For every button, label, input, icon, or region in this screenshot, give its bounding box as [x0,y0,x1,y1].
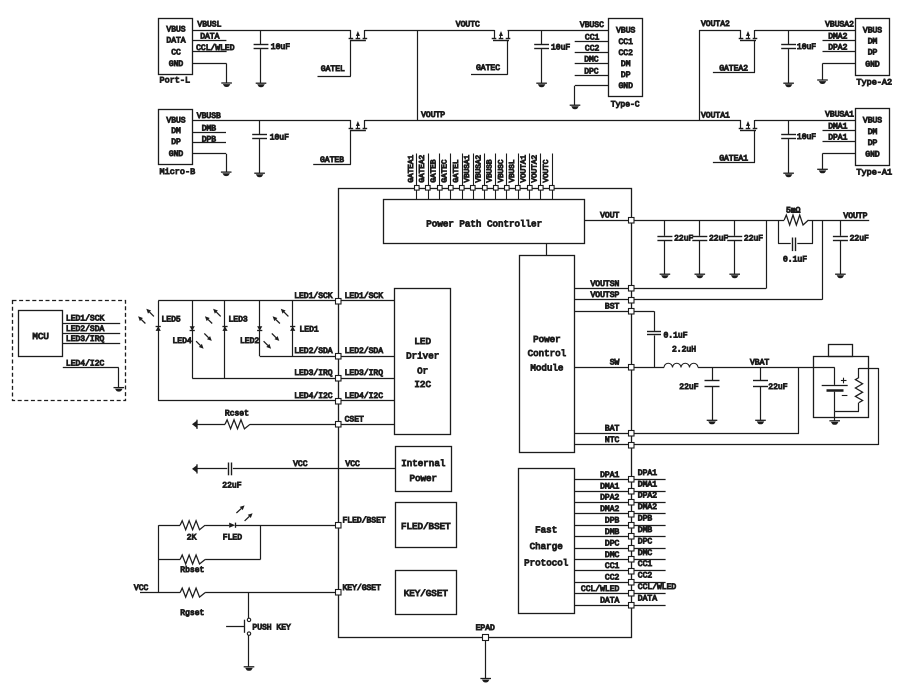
svg-text:GATEA1: GATEA1 [719,154,748,163]
svg-text:Micro-B: Micro-B [160,167,196,177]
svg-text:DMC: DMC [638,549,653,558]
svg-text:Power: Power [533,334,561,345]
svg-text:GND: GND [169,60,184,69]
svg-text:VBUS: VBUS [616,27,635,36]
svg-text:DM: DM [868,38,878,47]
svg-text:I2C: I2C [414,379,431,390]
svg-text:GATEA2: GATEA2 [719,64,748,73]
svg-text:DMA2: DMA2 [638,503,657,512]
svg-text:10uF: 10uF [271,43,290,52]
svg-text:GATEA1: GATEA1 [408,155,416,183]
svg-text:DATA: DATA [600,596,619,605]
svg-text:0.1uF: 0.1uF [664,331,688,340]
svg-text:DMA1: DMA1 [600,482,619,491]
svg-text:BST: BST [605,302,620,311]
svg-text:VOUTSP: VOUTSP [590,291,619,300]
svg-text:VOUTP: VOUTP [421,111,445,120]
svg-text:VBUSL: VBUSL [509,159,517,182]
svg-text:KEY/GSET: KEY/GSET [404,588,449,599]
svg-text:Rgset: Rgset [180,609,204,618]
svg-text:LED1/SCK: LED1/SCK [294,292,333,301]
svg-text:LED3/IRQ: LED3/IRQ [294,369,333,378]
svg-text:10uF: 10uF [270,133,289,142]
svg-text:VOUTA1: VOUTA1 [521,155,529,183]
svg-text:LED5: LED5 [162,316,181,325]
svg-text:LED2/SDA: LED2/SDA [66,325,105,334]
svg-text:DPB: DPB [638,515,653,524]
svg-text:DPA2: DPA2 [600,494,619,503]
svg-text:Or: Or [417,365,428,376]
svg-text:LED2/SDA: LED2/SDA [345,347,384,356]
svg-text:GATEC: GATEC [476,64,500,73]
svg-text:DPA1: DPA1 [638,469,657,478]
svg-text:DP: DP [621,71,631,80]
svg-text:GND: GND [865,150,880,159]
svg-text:10uF: 10uF [797,133,816,142]
svg-text:VBUS: VBUS [166,26,185,35]
svg-text:GATEL: GATEL [453,159,461,182]
svg-text:DM: DM [621,60,631,69]
svg-text:VBUSA1: VBUSA1 [464,155,472,183]
svg-text:VOUTA2: VOUTA2 [532,155,540,183]
svg-text:CCL/WLED: CCL/WLED [638,583,677,592]
svg-text:Fast: Fast [535,525,557,536]
svg-text:DP: DP [868,49,878,58]
svg-text:FLED/BSET: FLED/BSET [401,521,451,532]
svg-text:VBUSA2: VBUSA2 [825,21,854,30]
svg-text:Rbset: Rbset [180,566,204,575]
svg-text:VBUSA1: VBUSA1 [825,111,854,120]
svg-text:DM: DM [171,127,181,136]
svg-text:22uF: 22uF [768,383,787,392]
svg-text:Type-A2: Type-A2 [856,77,892,87]
svg-text:VBUSL: VBUSL [197,21,221,30]
svg-text:Internal: Internal [401,458,445,469]
svg-text:DP: DP [171,138,181,147]
svg-text:DMC: DMC [605,551,620,560]
svg-text:Rcset: Rcset [225,409,249,418]
svg-text:DMA2: DMA2 [600,505,619,514]
svg-text:DPA2: DPA2 [638,492,657,501]
svg-text:SW: SW [610,359,620,368]
svg-text:MCU: MCU [32,331,49,342]
svg-text:GATEB: GATEB [320,156,344,165]
svg-text:2K: 2K [187,534,197,543]
svg-text:10uF: 10uF [797,43,816,52]
svg-text:DPC: DPC [638,537,653,546]
svg-text:PUSH KEY: PUSH KEY [252,623,291,632]
svg-text:22uF: 22uF [850,235,869,244]
svg-text:Power Path Controller: Power Path Controller [426,218,542,229]
svg-text:EPAD: EPAD [476,624,495,633]
svg-text:CC: CC [171,48,181,57]
svg-text:22uF: 22uF [744,235,763,244]
svg-text:VOUTC: VOUTC [456,21,480,30]
svg-text:10uF: 10uF [551,44,570,53]
svg-text:DP: DP [868,139,878,148]
svg-text:5mΩ: 5mΩ [786,207,801,216]
svg-text:Type-A1: Type-A1 [856,167,892,177]
svg-text:LED1: LED1 [300,325,319,334]
svg-text:Module: Module [530,363,563,374]
svg-text:LED4: LED4 [173,337,192,346]
svg-text:VBUSC: VBUSC [498,159,506,182]
svg-text:VOUTA2: VOUTA2 [701,20,730,29]
svg-text:CCL/WLED: CCL/WLED [581,585,620,594]
svg-text:0.1uF: 0.1uF [783,255,807,264]
svg-text:LED4/I2C: LED4/I2C [345,392,384,401]
svg-text:CC2: CC2 [605,574,620,583]
svg-text:VBUSB: VBUSB [487,159,495,182]
svg-text:VOUTA1: VOUTA1 [701,111,730,120]
svg-text:22uF: 22uF [674,235,693,244]
svg-text:DMB: DMB [605,528,620,537]
svg-text:GATEC: GATEC [442,159,450,182]
svg-text:KEY/GSET: KEY/GSET [343,584,382,593]
svg-text:22uF: 22uF [222,481,241,490]
svg-text:DPA1: DPA1 [600,471,619,480]
svg-text:Protocol: Protocol [524,557,568,568]
svg-text:CC2: CC2 [638,572,653,581]
svg-text:GND: GND [618,82,633,91]
svg-text:22uF: 22uF [709,235,728,244]
svg-text:DPB: DPB [605,517,620,526]
svg-text:VBAT: VBAT [750,358,769,367]
svg-text:LED: LED [414,336,431,347]
svg-text:Type-C: Type-C [611,101,640,110]
svg-text:DATA: DATA [638,594,657,603]
svg-text:DPC: DPC [605,539,620,548]
svg-text:LED4/I2C: LED4/I2C [294,392,333,401]
svg-text:FLED: FLED [223,534,242,543]
svg-text:LED2/SDA: LED2/SDA [294,347,333,356]
svg-text:VBUSB: VBUSB [197,112,221,121]
svg-text:VOUTSN: VOUTSN [590,280,619,289]
svg-text:LED3/IRQ: LED3/IRQ [345,369,384,378]
svg-text:VBUS: VBUS [863,117,882,126]
svg-text:CC1: CC1 [618,38,633,47]
svg-text:DMA1: DMA1 [638,480,657,489]
svg-text:Control: Control [528,348,567,359]
svg-text:DM: DM [868,128,878,137]
svg-text:VOUTP: VOUTP [843,212,867,221]
svg-text:2.2uH: 2.2uH [672,345,696,354]
svg-text:LED1/SCK: LED1/SCK [66,315,105,324]
svg-text:NTC: NTC [605,436,620,445]
svg-text:Port-L: Port-L [160,76,191,86]
svg-text:VCC: VCC [345,460,360,469]
svg-text:GND: GND [169,150,184,159]
svg-text:DMB: DMB [638,526,653,535]
svg-text:VBUS: VBUS [863,26,882,35]
svg-text:LED3/IRQ: LED3/IRQ [66,335,105,344]
svg-text:DATA: DATA [166,36,185,45]
svg-text:22uF: 22uF [679,383,698,392]
svg-text:VBUS: VBUS [166,116,185,125]
svg-text:LED1/SCK: LED1/SCK [345,292,384,301]
svg-text:FLED/BSET: FLED/BSET [343,516,386,525]
svg-text:Power: Power [410,473,438,484]
svg-text:LED2: LED2 [240,337,259,346]
svg-text:GATEA2: GATEA2 [419,155,427,183]
svg-text:GND: GND [865,60,880,69]
svg-text:VCC: VCC [134,584,149,593]
svg-text:LED3: LED3 [229,316,248,325]
svg-text:CSET: CSET [345,415,364,424]
svg-text:CC1: CC1 [638,560,653,569]
svg-text:CC1: CC1 [605,562,620,571]
svg-text:VBUSC: VBUSC [580,21,604,30]
svg-text:VOUT: VOUT [600,211,619,220]
svg-text:VBUSA2: VBUSA2 [476,155,484,183]
svg-text:Charge: Charge [530,541,563,552]
svg-text:VOUTC: VOUTC [543,159,551,182]
svg-text:VCC: VCC [293,460,308,469]
svg-text:GATEB: GATEB [431,159,439,182]
svg-text:GATEL: GATEL [321,65,345,74]
svg-text:Driver: Driver [406,351,439,362]
svg-text:CC2: CC2 [618,49,633,58]
svg-text:BAT: BAT [605,425,620,434]
